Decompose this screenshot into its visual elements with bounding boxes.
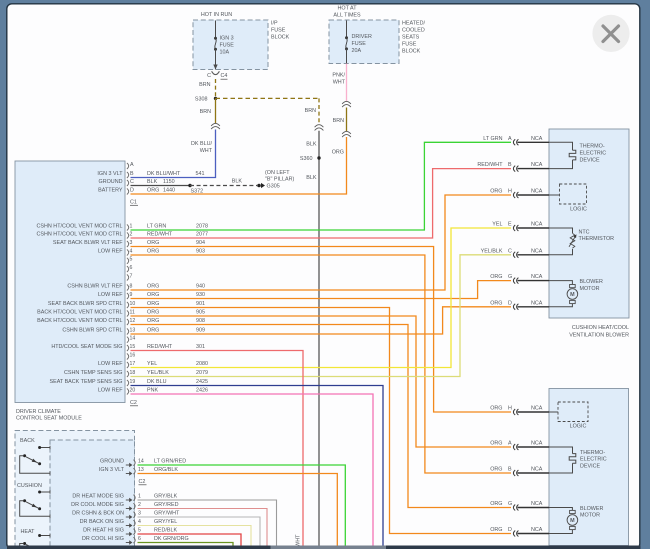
- cushion heat/cool ventilation blower box: [549, 129, 629, 318]
- svg-text:1150: 1150: [163, 179, 175, 185]
- switch module pin 4: [80, 519, 178, 528]
- svg-text:3: 3: [130, 240, 133, 246]
- svg-text:GRY/WHT: GRY/WHT: [154, 510, 180, 516]
- svg-text:908: 908: [196, 318, 205, 324]
- svg-text:NCA: NCA: [531, 274, 543, 280]
- svg-text:FUSE: FUSE: [271, 27, 286, 33]
- svg-text:14: 14: [130, 336, 136, 342]
- svg-text:ORG: ORG: [147, 187, 159, 193]
- break symbol: [342, 101, 351, 104]
- thermo-electric device U1: [549, 142, 606, 168]
- switch module pin 13: [99, 467, 178, 476]
- svg-text:D: D: [508, 300, 512, 306]
- module pin 11: [37, 309, 205, 316]
- heated/cooled seats fuse block (HOT AT ALL TIMES): [329, 5, 425, 63]
- svg-text:BRN: BRN: [333, 118, 344, 124]
- module pin 19: [50, 379, 209, 386]
- module pin 3: [53, 240, 205, 247]
- svg-text:SEAT BACK TEMP SENS SIG: SEAT BACK TEMP SENS SIG: [50, 379, 123, 385]
- svg-text:CUSHION: CUSHION: [17, 483, 42, 489]
- connector C4: [207, 71, 227, 79]
- svg-text:RED/BLK: RED/BLK: [154, 527, 177, 533]
- svg-text:2079: 2079: [196, 370, 208, 376]
- module pin 7: [127, 273, 133, 280]
- svg-text:8: 8: [130, 283, 133, 289]
- bottom scrollbar track: [7, 546, 641, 549]
- wire ORG 904 row3 to seat back blower H: [131, 247, 512, 413]
- svg-text:HOT AT: HOT AT: [338, 5, 358, 11]
- wire BRN dashed drop at B-pillar column: [318, 98, 320, 124]
- svg-text:DK BLU/: DK BLU/: [191, 141, 212, 147]
- label CUSHION HEAT/COOL VENTILATION BLOWER: [569, 325, 629, 339]
- module pin 9: [98, 292, 205, 299]
- svg-text:HEAT: HEAT: [21, 529, 36, 535]
- break symbol: [315, 125, 324, 128]
- svg-text:5: 5: [130, 257, 133, 263]
- switch module pin 2: [71, 502, 178, 511]
- svg-text:A: A: [508, 441, 512, 447]
- svg-text:CONTROL SEAT MODULE: CONTROL SEAT MODULE: [16, 416, 82, 422]
- wire PNK 2426 row20 down page: [131, 394, 374, 546]
- svg-text:BRN: BRN: [200, 109, 211, 115]
- note (ON LEFT "B" PILLAR): [265, 170, 294, 183]
- wire ORG 901 row10 to seat back blower D: [131, 308, 512, 534]
- module pin 14: [127, 336, 135, 343]
- svg-text:GROUND: GROUND: [99, 179, 123, 185]
- seat back heat/cool ventilation blower box: [549, 389, 629, 546]
- svg-text:ORG: ORG: [147, 283, 159, 289]
- svg-text:LOW REF: LOW REF: [98, 387, 123, 393]
- svg-text:DK GRN/ORG: DK GRN/ORG: [154, 536, 189, 542]
- svg-text:WHT: WHT: [200, 148, 213, 154]
- label PNK/WHT: [332, 72, 345, 85]
- svg-text:DEVICE: DEVICE: [580, 464, 600, 470]
- svg-text:DRIVER: DRIVER: [352, 34, 372, 40]
- svg-text:NCA: NCA: [531, 222, 543, 228]
- svg-text:B: B: [130, 171, 134, 177]
- svg-text:C4: C4: [221, 73, 228, 79]
- svg-text:YEL: YEL: [492, 222, 502, 228]
- svg-text:LT GRN: LT GRN: [147, 223, 166, 229]
- wire ORG/BLK switch pin13 down page: [138, 474, 338, 546]
- wire RED/WHT 301 row15 down page: [131, 351, 304, 546]
- svg-text:NCA: NCA: [531, 248, 543, 254]
- svg-text:SEAT BACK BLWR VLT REF: SEAT BACK BLWR VLT REF: [53, 240, 123, 246]
- switch CUSHION: [17, 483, 50, 518]
- svg-text:9: 9: [130, 292, 133, 298]
- svg-text:GRY/YEL: GRY/YEL: [154, 519, 177, 525]
- svg-text:ORG: ORG: [147, 327, 159, 333]
- svg-text:ORG: ORG: [490, 441, 502, 447]
- wire GRY/WHT switch pin3 down page: [138, 517, 261, 546]
- wire BLK 1150 module pin C to S372: [131, 185, 191, 187]
- wire ORG 909 row13 to cushion blower D: [131, 307, 512, 334]
- wire ORG 940 row8 to cushion blower H: [131, 195, 512, 290]
- switch module pin 6: [82, 536, 189, 545]
- svg-text:904: 904: [196, 240, 205, 246]
- wire LT GRN 2078 row1 to cushion blower A: [131, 142, 512, 230]
- svg-text:13: 13: [138, 467, 144, 473]
- ground G305: [257, 183, 279, 190]
- svg-text:BLOWER: BLOWER: [580, 279, 603, 285]
- svg-text:YEL/BLK: YEL/BLK: [147, 370, 169, 376]
- svg-text:ELECTRIC: ELECTRIC: [580, 151, 607, 157]
- svg-text:MOTOR: MOTOR: [580, 513, 600, 519]
- svg-text:THERMO-: THERMO-: [580, 450, 605, 456]
- svg-text:NCA: NCA: [531, 467, 543, 473]
- svg-text:C: C: [207, 73, 211, 79]
- splice S360: [300, 156, 321, 162]
- svg-text:10A: 10A: [220, 49, 230, 55]
- switch module pin 5: [83, 527, 177, 536]
- svg-text:301: 301: [196, 344, 205, 350]
- svg-text:C2: C2: [130, 400, 137, 406]
- svg-text:1: 1: [138, 493, 141, 499]
- svg-text:RED/WHT: RED/WHT: [477, 162, 503, 168]
- pin B NCA: [477, 162, 549, 171]
- module pin 16: [127, 352, 135, 359]
- svg-text:DR COOL HI SIG: DR COOL HI SIG: [82, 536, 124, 542]
- module pin 6: [127, 265, 133, 272]
- svg-text:G: G: [508, 274, 512, 280]
- svg-text:ORG: ORG: [332, 149, 344, 155]
- svg-text:LOW REF: LOW REF: [98, 361, 123, 367]
- switch BACK: [20, 438, 50, 475]
- svg-text:NCA: NCA: [531, 527, 543, 533]
- svg-text:ORG/BLK: ORG/BLK: [154, 467, 178, 473]
- svg-text:NCA: NCA: [531, 501, 543, 507]
- wire YEL 2080 row17 to cushion blower E: [131, 228, 512, 368]
- wire GRY/YEL switch pin4 down page: [138, 526, 252, 546]
- svg-text:LOW REF: LOW REF: [98, 292, 123, 298]
- svg-text:NCA: NCA: [531, 136, 543, 142]
- switch module pin 14: [100, 458, 186, 467]
- svg-text:ELECTRIC: ELECTRIC: [580, 457, 607, 463]
- svg-text:ORG: ORG: [490, 189, 502, 195]
- svg-text:COOLED: COOLED: [402, 27, 425, 33]
- svg-text:15: 15: [130, 344, 136, 350]
- svg-text:M: M: [570, 292, 575, 298]
- svg-text:ORG: ORG: [147, 292, 159, 298]
- svg-text:ORG: ORG: [147, 309, 159, 315]
- svg-text:19: 19: [130, 379, 136, 385]
- svg-text:IGN 3 VLT: IGN 3 VLT: [99, 467, 125, 473]
- svg-text:H: H: [508, 406, 512, 412]
- driver climate control seat module box: [15, 161, 125, 403]
- pin C NCA: [481, 248, 549, 257]
- svg-text:HTD/COOL SEAT MODE SIG: HTD/COOL SEAT MODE SIG: [51, 344, 122, 350]
- pin G NCA: [490, 501, 549, 510]
- logic block: [549, 184, 587, 213]
- svg-text:4: 4: [138, 519, 141, 525]
- module pin B: [97, 171, 204, 178]
- svg-text:ORG: ORG: [490, 467, 502, 473]
- thermo-electric device U2: [549, 447, 607, 473]
- svg-text:YEL/BLK: YEL/BLK: [481, 248, 503, 254]
- svg-text:C: C: [508, 248, 512, 254]
- svg-text:905: 905: [196, 309, 205, 315]
- svg-text:B: B: [508, 162, 512, 168]
- svg-text:17: 17: [130, 361, 136, 367]
- svg-text:I/P: I/P: [271, 20, 278, 26]
- svg-text:2: 2: [130, 231, 133, 237]
- logic block: [549, 402, 588, 430]
- svg-text:ORG: ORG: [147, 301, 159, 307]
- wire PNK/WHT from driver fuse: [346, 64, 348, 102]
- wire BLK down page: [318, 131, 320, 546]
- break symbol: [211, 123, 220, 126]
- pin D NCA: [490, 527, 549, 536]
- svg-text:PNK/: PNK/: [332, 72, 345, 78]
- svg-text:909: 909: [196, 327, 205, 333]
- svg-text:ORG: ORG: [147, 248, 159, 254]
- svg-text:GRY/RED: GRY/RED: [154, 502, 179, 508]
- pin G NCA: [490, 274, 549, 283]
- wire RED/BLK switch pin5 down page: [138, 534, 242, 546]
- svg-text:DRIVER CLIMATE: DRIVER CLIMATE: [16, 409, 61, 415]
- switch module pin 3: [72, 510, 180, 519]
- wire ORG battery feed to module pin D: [131, 137, 347, 194]
- svg-text:CSHN TEMP SENS SIG: CSHN TEMP SENS SIG: [64, 370, 123, 376]
- wire YEL/BLK 2079 row18 to cushion blower C: [131, 255, 512, 377]
- svg-text:CSHN HT/COOL VENT MOD CTRL: CSHN HT/COOL VENT MOD CTRL: [37, 231, 123, 237]
- svg-text:BACK: BACK: [20, 438, 35, 444]
- pin H NCA: [490, 406, 549, 415]
- svg-text:20: 20: [130, 387, 136, 393]
- svg-text:6: 6: [138, 536, 141, 542]
- svg-text:MOTOR: MOTOR: [580, 286, 600, 292]
- svg-text:541: 541: [196, 171, 205, 177]
- svg-text:PNK: PNK: [147, 387, 158, 393]
- svg-text:2080: 2080: [196, 361, 208, 367]
- svg-text:(ON LEFT: (ON LEFT: [265, 170, 290, 176]
- close button: [592, 15, 629, 52]
- svg-text:12: 12: [130, 318, 136, 324]
- wire DK BLU/WHT 541 (fuse to module pin B): [131, 130, 216, 178]
- wire DK GRN/ORG switch pin6 down page: [138, 543, 234, 546]
- splice S372: [188, 184, 203, 195]
- pin A NCA: [483, 136, 549, 145]
- svg-text:FUSE: FUSE: [220, 42, 235, 48]
- svg-text:B: B: [508, 467, 512, 473]
- module pin 2: [37, 231, 208, 238]
- svg-text:FUSE: FUSE: [402, 41, 417, 47]
- wire ORG 903 row4 to seat back blower B: [131, 255, 512, 473]
- svg-text:VENTILATION BLOWER: VENTILATION BLOWER: [569, 332, 629, 338]
- svg-text:14: 14: [138, 458, 144, 464]
- svg-text:930: 930: [196, 292, 205, 298]
- svg-text:DEVICE: DEVICE: [580, 157, 600, 163]
- svg-text:G: G: [508, 501, 512, 507]
- svg-text:LOGIC: LOGIC: [570, 207, 587, 213]
- svg-text:CSHN HT/COOL VENT MOD CTRL: CSHN HT/COOL VENT MOD CTRL: [37, 223, 123, 229]
- splice S308: [195, 96, 217, 102]
- svg-text:2: 2: [138, 502, 141, 508]
- svg-text:CSHN BLWR SPD CTRL: CSHN BLWR SPD CTRL: [62, 327, 122, 333]
- wire BRN solid below S308: [215, 98, 217, 123]
- svg-text:BATTERY: BATTERY: [98, 187, 123, 193]
- svg-text:18: 18: [130, 370, 136, 376]
- pin H NCA: [490, 189, 549, 198]
- svg-text:HEATED/: HEATED/: [402, 20, 425, 26]
- svg-text:NCA: NCA: [531, 441, 543, 447]
- svg-text:2078: 2078: [196, 223, 208, 229]
- svg-text:H: H: [508, 189, 512, 195]
- svg-text:6: 6: [130, 265, 133, 271]
- I/P fuse block (HOT IN RUN): [193, 12, 290, 70]
- svg-text:ORG: ORG: [147, 240, 159, 246]
- break symbol: [342, 131, 351, 134]
- module pin 17: [98, 361, 208, 368]
- svg-text:"B" PILLAR): "B" PILLAR): [265, 176, 294, 182]
- module pin 18: [64, 370, 208, 377]
- svg-text:D: D: [508, 527, 512, 533]
- wire GRY/RED switch pin2 down page: [138, 509, 268, 546]
- wire RED/WHT 2077 row2 to cushion blower B: [131, 169, 512, 238]
- wire ORG 930 row9 to cushion blower G: [131, 281, 512, 299]
- wire DK BLU 2425 row19 down page: [131, 386, 384, 546]
- svg-text:11: 11: [130, 309, 135, 315]
- svg-text:901: 901: [196, 301, 205, 307]
- svg-text:BRN: BRN: [199, 82, 210, 88]
- svg-text:10: 10: [130, 301, 136, 307]
- label DRIVER CLIMATE CONTROL SEAT MODULE: [16, 409, 82, 422]
- svg-text:5: 5: [138, 527, 141, 533]
- svg-text:BRN: BRN: [305, 108, 316, 114]
- svg-text:ORG: ORG: [490, 300, 502, 306]
- svg-text:THERMO-: THERMO-: [580, 144, 605, 150]
- pin E NCA: [492, 222, 549, 231]
- svg-text:IGN 3 VLT: IGN 3 VLT: [97, 171, 123, 177]
- svg-text:NCA: NCA: [531, 162, 543, 168]
- svg-text:20A: 20A: [352, 48, 362, 54]
- module pin 8: [67, 283, 205, 290]
- svg-text:ALL TIMES: ALL TIMES: [333, 12, 361, 18]
- svg-text:BLK: BLK: [232, 178, 243, 184]
- wire BRN dashed S308 to right column: [216, 97, 320, 99]
- svg-text:S372: S372: [191, 188, 204, 194]
- svg-text:ORG: ORG: [490, 406, 502, 412]
- svg-text:A: A: [130, 162, 134, 168]
- svg-text:LOGIC: LOGIC: [570, 424, 587, 430]
- svg-text:4: 4: [130, 248, 133, 254]
- pin B NCA: [490, 467, 549, 476]
- module pin 12: [37, 318, 205, 325]
- svg-text:WHT: WHT: [296, 534, 302, 547]
- svg-text:903: 903: [196, 248, 205, 254]
- svg-text:DK BLU: DK BLU: [147, 379, 167, 385]
- svg-text:G305: G305: [267, 183, 280, 189]
- svg-text:FUSE: FUSE: [352, 41, 367, 47]
- svg-text:NCA: NCA: [531, 406, 543, 412]
- svg-text:NCA: NCA: [531, 189, 543, 195]
- svg-text:3: 3: [138, 510, 141, 516]
- fuse F1 IGN 3 FUSE 10A: [213, 21, 234, 70]
- svg-text:DR CSHN & BCK ON: DR CSHN & BCK ON: [72, 510, 124, 516]
- svg-text:ORG: ORG: [490, 274, 502, 280]
- svg-text:RED/WHT: RED/WHT: [147, 231, 173, 237]
- svg-text:GROUND: GROUND: [100, 458, 124, 464]
- connector C1: [130, 199, 138, 205]
- svg-text:CSHN BLWR VLT REF: CSHN BLWR VLT REF: [67, 283, 123, 289]
- pin A NCA: [490, 441, 549, 450]
- svg-text:BLK: BLK: [147, 179, 158, 185]
- svg-text:RED/WHT: RED/WHT: [147, 344, 173, 350]
- svg-text:940: 940: [196, 283, 205, 289]
- switch HEAT: [20, 529, 50, 548]
- blower motor M1: [549, 279, 603, 307]
- svg-text:DK BLU/WHT: DK BLU/WHT: [147, 171, 181, 177]
- svg-text:DR BACK ON SIG: DR BACK ON SIG: [80, 519, 124, 525]
- module pin 1: [37, 223, 208, 230]
- module pin 4: [98, 248, 205, 255]
- svg-text:DR HEAT HI SIG: DR HEAT HI SIG: [83, 527, 124, 533]
- svg-text:SEAT BACK BLWR SPD CTRL: SEAT BACK BLWR SPD CTRL: [48, 301, 123, 307]
- svg-text:2426: 2426: [196, 387, 208, 393]
- pin D NCA: [490, 300, 549, 309]
- wire ORG 908 row12 to seat back blower G: [131, 325, 512, 508]
- module pin A: [127, 162, 134, 169]
- svg-text:DR COOL MODE SIG: DR COOL MODE SIG: [71, 502, 124, 508]
- svg-text:CUSHION HEAT/COOL: CUSHION HEAT/COOL: [572, 325, 629, 331]
- svg-text:ORG: ORG: [490, 501, 502, 507]
- svg-text:IGN 3: IGN 3: [220, 35, 234, 41]
- svg-text:ORG: ORG: [147, 318, 159, 324]
- svg-text:1440: 1440: [163, 187, 175, 193]
- svg-text:M: M: [570, 518, 575, 524]
- module pin 20: [98, 387, 208, 394]
- module pin 10: [48, 301, 205, 308]
- svg-text:BLOCK: BLOCK: [271, 34, 290, 40]
- svg-text:LT GRN/RED: LT GRN/RED: [154, 458, 186, 464]
- fuse F2 DRIVER FUSE 20A: [345, 21, 372, 64]
- svg-text:BLOCK: BLOCK: [402, 48, 421, 54]
- svg-text:16: 16: [130, 352, 136, 358]
- bottom module connector C2 label: [139, 479, 147, 485]
- svg-text:BACK HT/COOL VENT MOD CTRL: BACK HT/COOL VENT MOD CTRL: [37, 318, 122, 324]
- module pin 13: [62, 327, 205, 334]
- svg-text:E: E: [508, 222, 512, 228]
- svg-text:WHT: WHT: [333, 79, 346, 85]
- svg-text:THERMISTOR: THERMISTOR: [579, 236, 615, 242]
- NTC thermistor R1: [549, 228, 614, 255]
- svg-text:S308: S308: [195, 96, 208, 102]
- driver seat switch module outer dashed box: [15, 431, 135, 549]
- wire LT GRN/RED switch pin14 down page: [138, 465, 346, 546]
- svg-text:SEATS: SEATS: [402, 34, 420, 40]
- svg-text:13: 13: [130, 327, 136, 333]
- svg-text:C: C: [130, 179, 134, 185]
- svg-text:LOW REF: LOW REF: [98, 248, 123, 254]
- module pin 5: [127, 257, 133, 264]
- svg-text:NCA: NCA: [531, 300, 543, 306]
- wire ORG 905 row11 to seat back blower A: [131, 316, 512, 447]
- module pin 15: [51, 344, 205, 351]
- svg-text:HOT IN RUN: HOT IN RUN: [201, 12, 232, 18]
- svg-text:1: 1: [130, 223, 133, 229]
- svg-text:A: A: [508, 136, 512, 142]
- svg-text:BLOWER: BLOWER: [580, 506, 603, 512]
- switch module pin 1: [72, 493, 177, 502]
- svg-text:GRY/BLK: GRY/BLK: [154, 493, 178, 499]
- wire BRN mid segment: [346, 108, 348, 132]
- module pin C: [99, 179, 175, 186]
- svg-text:YEL: YEL: [147, 361, 157, 367]
- svg-text:DR HEAT MODE SIG: DR HEAT MODE SIG: [72, 493, 124, 499]
- wire BLK dashed to G305: [190, 185, 257, 187]
- svg-text:2425: 2425: [196, 379, 208, 385]
- svg-text:C2: C2: [139, 479, 146, 485]
